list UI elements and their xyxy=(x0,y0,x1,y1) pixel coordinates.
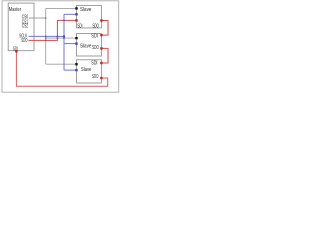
svg-text:SDI: SDI xyxy=(91,61,97,67)
pin square slave U4 SDI xyxy=(100,62,102,64)
wire slave U3 SDO to slave U4 SDI (red) xyxy=(101,48,108,63)
pin square slave U4 SCLK xyxy=(75,69,77,71)
circuit schematic: SPI master with three daisy-chained slaves xyxy=(0,0,120,94)
node CS junction at slave U3 branch xyxy=(45,37,47,39)
node CS junction at master branch xyxy=(45,17,47,19)
pin square slave U4 SDO xyxy=(100,77,102,79)
wire crossing SDO vert over SCLK xyxy=(57,36,58,37)
svg-text:SDI: SDI xyxy=(91,34,98,40)
svg-text:SDO: SDO xyxy=(92,45,99,51)
wire SCLK to slave U4 xyxy=(64,69,77,71)
wire SCLK to slave U2 xyxy=(64,13,77,15)
wire CS to slave U3 xyxy=(46,37,77,39)
svg-text:Slave: Slave xyxy=(80,7,91,13)
wire crossing SCLK vert over red to slave U2 SDI xyxy=(63,20,64,21)
svg-text:Slave: Slave xyxy=(81,67,92,73)
wire crossing SDO vert over CS branch xyxy=(57,37,58,38)
wire SCLK to slave U3 xyxy=(64,43,77,45)
wire SCLK from master xyxy=(29,35,65,37)
wire crossing SCLK vert over CS branch xyxy=(63,37,64,38)
pin square slave U3 SDO xyxy=(100,47,102,49)
wire crossing CS over SCLK xyxy=(45,36,46,37)
slave U2 box xyxy=(77,5,102,28)
svg-text:SDO: SDO xyxy=(92,23,99,29)
pin square slave U2 SDO xyxy=(100,19,102,21)
pin square slave U2 SDI xyxy=(75,19,77,21)
svg-text:SDO: SDO xyxy=(92,74,99,80)
wire crossing SCLK vert over CS branch slave U4 xyxy=(63,64,64,65)
slave U4 box xyxy=(77,60,102,83)
wire crossing CS over SDO xyxy=(45,40,46,41)
wire slave U4 SDO to master SDI (red return) xyxy=(16,51,107,86)
pin square slave U3 SDI xyxy=(100,34,102,36)
node SCLK junction at master branch xyxy=(63,35,65,37)
wire CS to slave U4 xyxy=(46,63,77,65)
pin square slave U3 CS xyxy=(75,37,77,39)
wire CS to slave U2 xyxy=(46,7,77,9)
pin square slave U2 CS xyxy=(75,7,77,9)
wire CS0 from master xyxy=(29,17,46,19)
svg-text:SDI: SDI xyxy=(77,23,82,29)
wire slave U2 SDO to slave U3 SDI (red) xyxy=(101,21,108,36)
svg-text:Master: Master xyxy=(9,7,21,13)
pin square slave U4 CS xyxy=(75,63,77,65)
svg-text:Slave: Slave xyxy=(80,43,91,49)
pin square master SDI xyxy=(15,50,17,52)
border frame xyxy=(2,1,119,92)
pin square slave U2 SCLK xyxy=(75,13,77,15)
svg-text:SDO: SDO xyxy=(21,38,27,44)
SDO net: master SDO to slave U2 SDI (red) xyxy=(29,20,77,40)
wire CS vertical bus xyxy=(45,8,47,64)
slave U3 box xyxy=(77,34,102,56)
pin square slave U3 SCLK xyxy=(75,42,77,44)
wire SCLK vertical bus xyxy=(63,14,65,70)
svg-text:CS2: CS2 xyxy=(22,24,28,30)
master U1 box xyxy=(8,3,34,51)
